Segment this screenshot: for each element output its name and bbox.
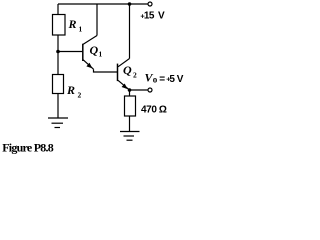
label Q2: [123, 63, 137, 80]
wire Q1 emitter to Q2 base: [94, 69, 118, 72]
svg-text:5: 5: [169, 74, 175, 85]
terminal Vo output: [148, 88, 152, 92]
wire output node to terminal: [130, 89, 148, 91]
terminal +15V: [148, 2, 152, 6]
svg-text:2: 2: [78, 91, 82, 100]
svg-text:=: =: [159, 74, 165, 85]
label R2: [66, 83, 82, 100]
wire 470 ohm to ground: [129, 116, 131, 131]
svg-text:2: 2: [133, 71, 137, 80]
wire R1 top lead: [57, 4, 59, 15]
svg-text:Figure P8.8: Figure P8.8: [2, 140, 54, 154]
wire Q1 collector to rail: [96, 4, 98, 36]
wire node to 470 ohm resistor: [129, 90, 131, 96]
node A junction (R1/R2/Q1 base): [56, 50, 60, 54]
label Q1: [90, 43, 103, 59]
svg-text:470 Ω: 470 Ω: [141, 105, 167, 116]
wire R2 to ground: [57, 94, 59, 118]
svg-text:V: V: [177, 74, 184, 85]
svg-text:15: 15: [144, 11, 155, 22]
transistor Q1: [83, 36, 97, 70]
wire top +15V rail: [58, 3, 148, 5]
wire Q1 base lead: [58, 51, 82, 53]
label R1: [68, 17, 83, 34]
ground left: [48, 118, 68, 128]
wire node A to R2: [57, 52, 59, 75]
resistor 470 ohm: [125, 96, 136, 116]
svg-text:1: 1: [99, 50, 103, 59]
resistor R1: [53, 15, 66, 36]
node junction Q2 emitter/output: [128, 88, 132, 92]
ground right: [120, 132, 140, 141]
svg-text:Q: Q: [90, 43, 99, 57]
svg-text:o: o: [153, 74, 158, 84]
wire Q2 collector to rail: [129, 4, 131, 59]
wire R1 bottom to node A: [57, 35, 59, 52]
resistor R2: [53, 75, 64, 94]
svg-text:Q: Q: [123, 63, 132, 77]
svg-text:R: R: [68, 17, 77, 31]
transistor Q2: [118, 59, 130, 91]
node junction rail/Q2 collector: [128, 2, 132, 6]
svg-text:R: R: [66, 83, 75, 97]
svg-text:1: 1: [79, 25, 83, 34]
svg-text:V: V: [158, 11, 165, 22]
label Vo = +5 V: [145, 71, 184, 85]
